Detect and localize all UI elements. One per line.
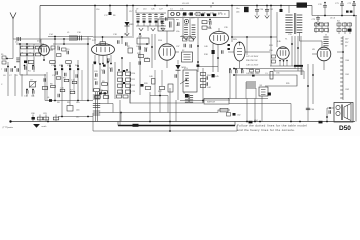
svg-text:S3: S3 [260, 85, 262, 87]
svg-text:R40: R40 [346, 60, 349, 62]
svg-text:C47 .05 350V: C47 .05 350V [246, 56, 259, 58]
svg-text:C62: C62 [237, 115, 240, 117]
svg-text:C17: C17 [129, 11, 132, 13]
svg-text:C40: C40 [136, 46, 139, 48]
svg-text:R16: R16 [181, 36, 184, 38]
svg-text:C15: C15 [66, 49, 69, 51]
svg-text:C48 .01 250V: C48 .01 250V [246, 64, 259, 66]
svg-text:L4c: L4c [76, 117, 79, 119]
svg-text:D50: D50 [339, 125, 351, 132]
svg-text:R20: R20 [144, 48, 147, 50]
svg-text:R21: R21 [137, 53, 140, 55]
svg-text:T2: T2 [183, 93, 185, 95]
svg-text:C36: C36 [188, 36, 191, 38]
svg-text:S2: S2 [182, 50, 184, 52]
svg-text:L10 L11: L10 L11 [182, 3, 190, 5]
svg-text:osc: osc [176, 19, 179, 21]
svg-text:R42: R42 [346, 89, 349, 91]
svg-text:R35: R35 [286, 83, 289, 85]
svg-text:C16: C16 [96, 9, 99, 11]
svg-text:Follow the dotted lines for th: Follow the dotted lines for the table mo… [237, 124, 307, 128]
svg-text:C42: C42 [145, 58, 148, 60]
svg-text:R6: R6 [113, 15, 115, 17]
svg-text:and the heavy lines for t: and the heavy lines for the console. [237, 128, 295, 132]
svg-text:R2: R2 [57, 46, 59, 48]
svg-text:R41: R41 [346, 74, 349, 76]
svg-text:C37: C37 [176, 46, 179, 48]
svg-text:L6 L6: L6 L6 [330, 18, 336, 20]
svg-text:A: A [212, 1, 214, 5]
svg-text:R30 25K 1W: R30 25K 1W [246, 60, 257, 62]
svg-text:MR1: MR1 [129, 24, 134, 26]
svg-text:C56: C56 [276, 73, 279, 75]
svg-text:SWITCH: SWITCH [207, 102, 215, 104]
